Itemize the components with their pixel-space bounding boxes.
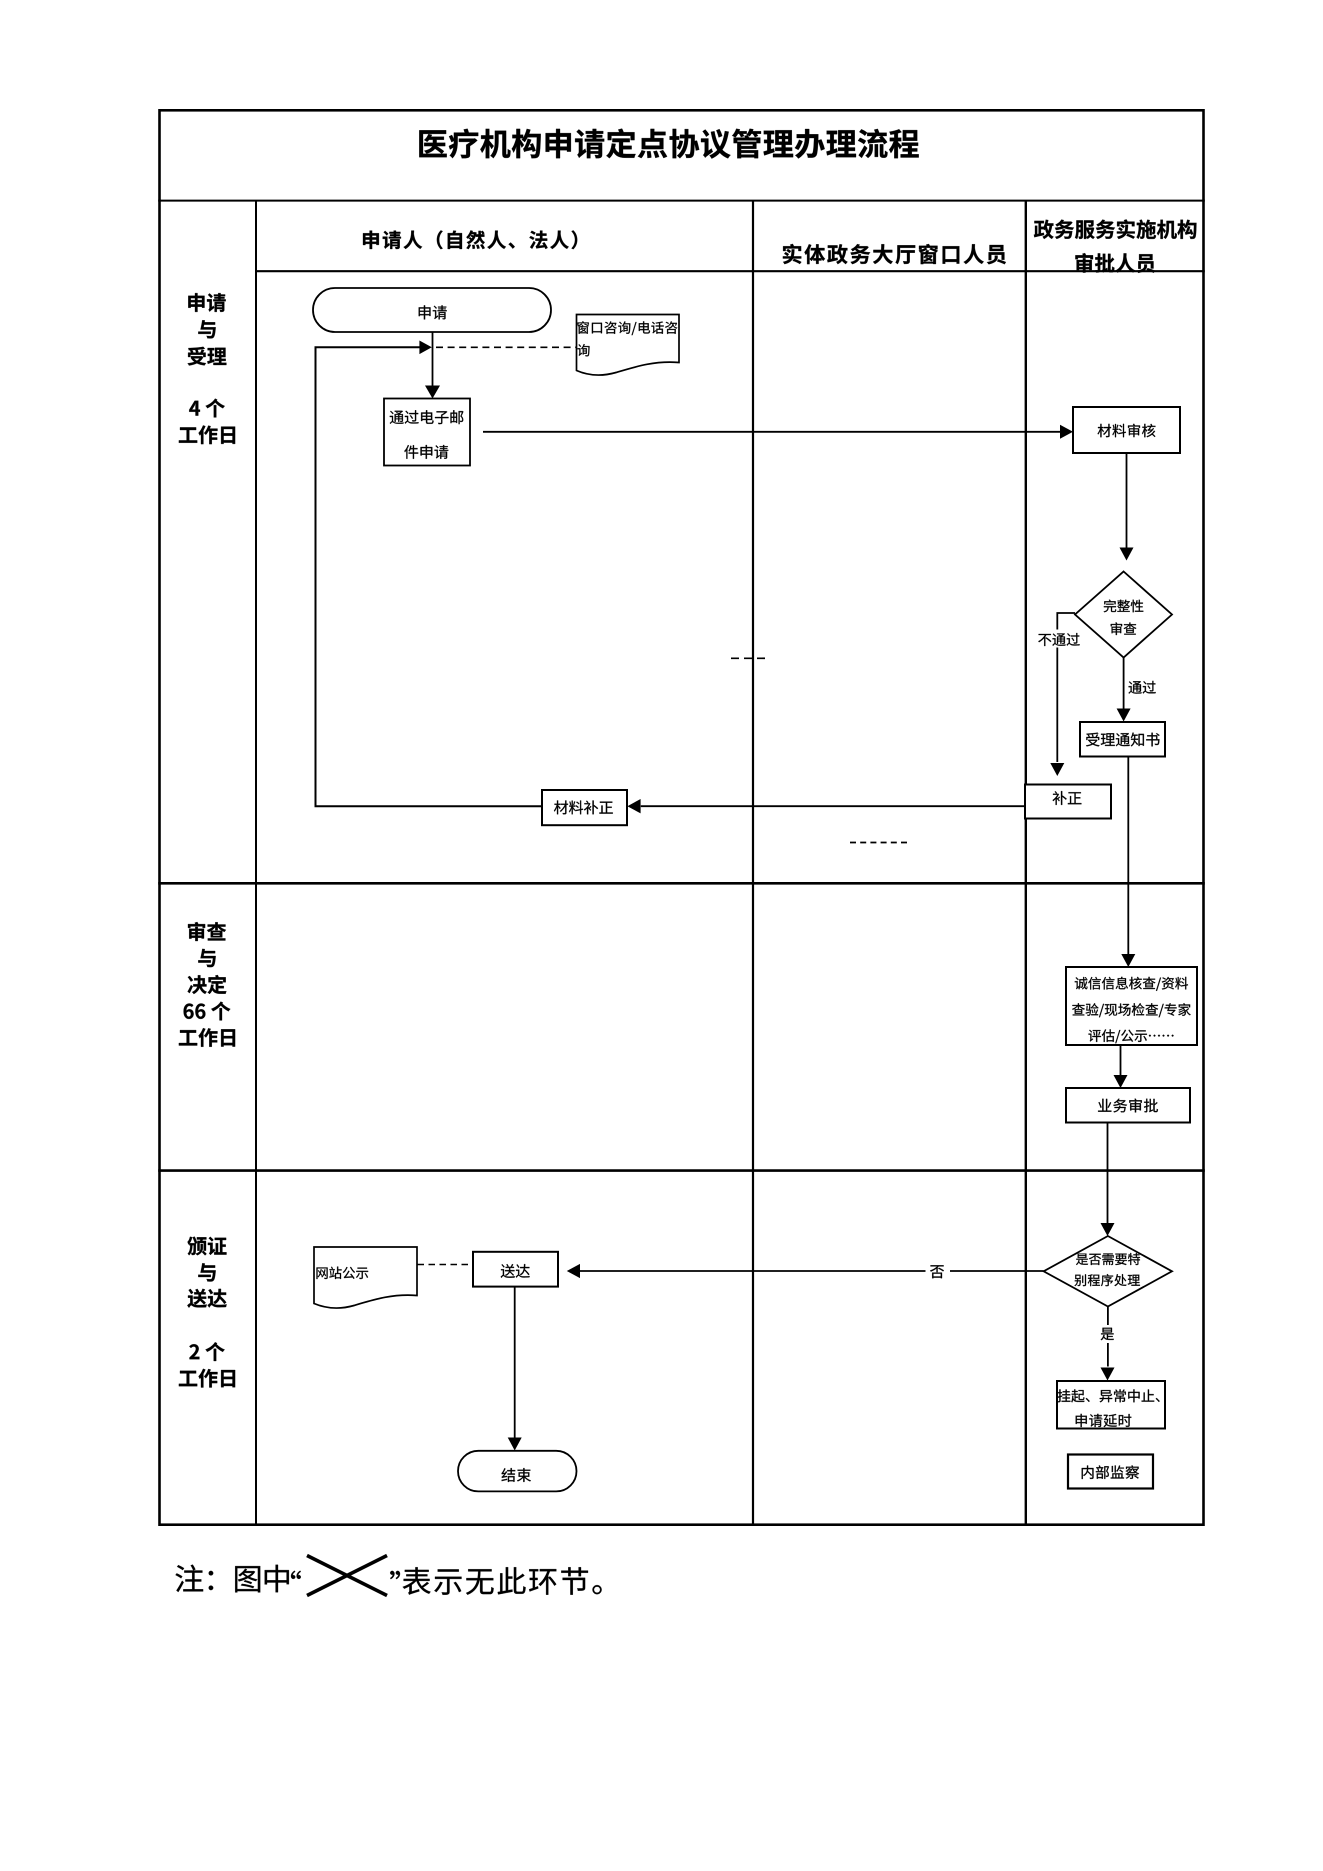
footnote opening quote [291,1571,301,1579]
connector 业务审批 to decision2 [1107,1123,1109,1224]
footnote X symbol [307,1556,387,1596]
dashed fragment in lane2 row1 [731,657,766,659]
footnote closing quote [390,1571,400,1579]
process box: 受理通知书 [1080,722,1165,757]
terminator: 结束 [458,1451,577,1492]
process box: 诚信信息核查 etc [1066,967,1197,1045]
dashed consult connector [436,346,576,348]
feedback loop wire from 材料补正 up and right [316,347,543,806]
label 否 [926,1262,951,1280]
stage2 label [188,922,226,941]
connector 受理通知书 down to row2 box [1127,757,1129,955]
document: 窗口咨询/电话咨询 [577,315,680,375]
connector 材料审核 to diamond [1126,453,1128,548]
swimlane header bottom line [256,270,1205,272]
process box: 内部监察 [1068,1455,1153,1489]
label 通过 [1129,681,1156,694]
process box: 通过电子邮件申请 [384,399,470,466]
row separator: row1/row2 [158,882,1205,885]
connector 补正 to 材料补正 [641,805,1025,807]
lane1 header text [363,230,577,249]
connector 送达 to 结束 [514,1287,516,1438]
footnote text right part [403,1567,602,1595]
stage3 label [188,1237,227,1256]
dashed connector 网站公示 to 送达 [418,1264,471,1266]
footnote text left part [176,1565,289,1593]
decision diamond: 完整性审查 [1075,572,1172,658]
document: 网站公示 [314,1247,417,1308]
label 不通过 [1036,630,1082,648]
process box: 送达 [473,1252,558,1287]
vertical line: lane2/lane3 [1025,201,1027,1525]
decision diamond: 是否需要特别程序处理 [1044,1236,1172,1307]
lane3 header text line1 [1034,219,1197,239]
connector decision2 to 送达 (否) [580,1270,1044,1272]
title text [419,129,918,159]
process box: 补正 [1025,785,1111,819]
row separator: row2/row3 [158,1169,1205,1172]
process box: 材料审核 [1073,407,1180,453]
terminator: 申请 [313,288,551,332]
vertical line: lane1/lane2 [752,201,754,1525]
title row bottom line [158,200,1205,202]
connector decision2 to 挂起 box [1101,1368,1115,1381]
process box: 挂起异常中止申请延时 [1057,1381,1165,1429]
connector 申请 to junction to email box [432,332,434,386]
vertical line: stage column [255,201,257,1525]
connector diamond to 受理通知书 [1123,658,1125,710]
process box: 业务审批 [1066,1088,1190,1123]
branch wire 不通过 to 补正 [1057,613,1075,762]
connector email box to 材料审核 [483,431,1060,433]
lane3 header text line2 [1075,253,1155,273]
stage1 label [188,293,225,312]
table outer border [160,110,1204,1524]
dashed fragment in lane2 row1 lower [850,842,907,844]
connector to 业务审批 [1120,1045,1122,1075]
process box: 材料补正 [542,790,627,825]
lane2 header text [783,244,1006,264]
label 是 [1107,1307,1109,1367]
